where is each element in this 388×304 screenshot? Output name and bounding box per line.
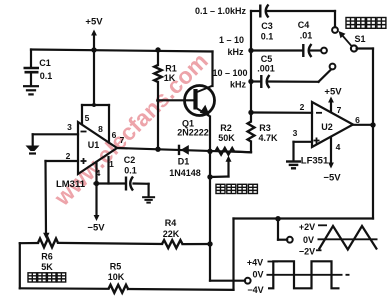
diode D1 — [169, 145, 201, 178]
wire line3 — [251, 70, 331, 82]
svg-text:10 – 100: 10 – 100 — [212, 68, 247, 78]
wire R2 to R3 — [234, 150, 251, 153]
svg-text:R5: R5 — [110, 262, 122, 272]
label S1 — [354, 34, 365, 44]
label pinlv tiaozheng — [216, 184, 257, 193]
square waveform — [267, 261, 350, 288]
switch S1 pole — [351, 45, 357, 51]
node triangle tap — [275, 216, 280, 221]
wire S1 to rail — [357, 49, 373, 219]
svg-text:+5V: +5V — [85, 17, 103, 28]
wire R5 left — [20, 243, 109, 289]
svg-text:2N2222: 2N2222 — [177, 128, 209, 138]
svg-text:.001: .001 — [257, 64, 275, 74]
svg-text:LM311: LM311 — [56, 179, 86, 190]
svg-text:0.1 – 1.0kHz: 0.1 – 1.0kHz — [195, 6, 247, 16]
terminal triangle out — [287, 237, 293, 243]
resistor R2 — [216, 123, 236, 155]
triangle waveform — [316, 225, 378, 250]
label fudu tiaojie — [28, 273, 66, 282]
node pin4 junction — [94, 181, 99, 186]
transistor Q1 — [158, 86, 215, 152]
svg-text:R4: R4 — [165, 218, 177, 228]
svg-text:1N4148: 1N4148 — [169, 168, 201, 178]
node Q1 base / R1 — [156, 99, 160, 103]
-5V supply U1 — [87, 184, 105, 234]
wire R6 to R4 — [58, 243, 162, 244]
svg-text:6: 6 — [355, 115, 360, 125]
square waveform labels — [247, 258, 264, 296]
svg-text:−5V: −5V — [323, 173, 341, 184]
terminal square out — [245, 278, 251, 284]
svg-text:R3: R3 — [259, 123, 271, 133]
switch contact 3 — [330, 64, 336, 70]
wire U2 output — [353, 124, 373, 126]
svg-text:50K: 50K — [218, 133, 235, 143]
ground C2 — [142, 197, 155, 202]
ground — [23, 86, 39, 94]
svg-text:0.1: 0.1 — [261, 32, 274, 42]
svg-text:C4: C4 — [298, 20, 310, 30]
triangle waveform labels — [299, 222, 315, 257]
svg-text:R1: R1 — [165, 64, 177, 74]
svg-text:kHz: kHz — [230, 80, 247, 90]
svg-text:+4V: +4V — [247, 258, 263, 268]
wire emitter node down — [209, 151, 211, 280]
svg-text:0V: 0V — [303, 235, 314, 245]
U1 pin labels — [66, 113, 125, 178]
svg-text:4.7K: 4.7K — [258, 133, 278, 143]
svg-text:0V: 0V — [252, 270, 263, 280]
label LM311 — [56, 179, 86, 190]
resistor R6 — [38, 239, 58, 272]
wire Q1 collector feed — [211, 52, 213, 87]
capacitor C4 — [298, 20, 313, 57]
svg-text:0.1: 0.1 — [40, 71, 53, 81]
wire U1 output — [117, 148, 251, 152]
ground U1 pin3 — [26, 146, 40, 154]
ground U2 pin3 — [286, 162, 301, 169]
svg-text:kHz: kHz — [227, 47, 244, 57]
label pinlv fanwei — [346, 18, 386, 29]
svg-text:5: 5 — [85, 113, 90, 123]
svg-text:LF351: LF351 — [301, 156, 329, 167]
wire U1 pin bus — [82, 103, 109, 143]
svg-text:4: 4 — [336, 142, 341, 152]
svg-text:−4V: −4V — [247, 285, 263, 295]
wire U1 pin4 pin1 — [95, 157, 125, 184]
node line2 — [248, 48, 253, 53]
resistor R3 — [248, 11, 278, 152]
wire U1 pin3 — [33, 134, 78, 145]
svg-text:+2V: +2V — [299, 222, 315, 232]
svg-text:8: 8 — [98, 124, 103, 134]
svg-text:C3: C3 — [261, 21, 273, 31]
R2 wiper — [211, 156, 232, 177]
U2 -5V pin4 — [323, 137, 341, 184]
capacitor C1 — [24, 58, 53, 85]
svg-text:6: 6 — [112, 130, 117, 140]
op-amp U2 — [312, 102, 353, 147]
+5V supply arrow — [85, 17, 103, 51]
label LF351 — [301, 156, 329, 167]
svg-text:7: 7 — [337, 105, 342, 115]
svg-text:3: 3 — [67, 122, 72, 132]
wire +5V rail — [31, 50, 213, 52]
svg-text:1K: 1K — [164, 73, 176, 83]
svg-text:C1: C1 — [39, 58, 51, 68]
svg-text:S1: S1 — [354, 34, 365, 44]
svg-text:−2V: −2V — [299, 247, 315, 257]
resistor R4 — [162, 218, 183, 248]
switch S1 arm — [339, 31, 352, 46]
svg-text:7: 7 — [120, 135, 125, 145]
svg-text:C5: C5 — [261, 54, 273, 64]
node R3 top — [248, 110, 253, 115]
node wiper junction — [207, 174, 212, 179]
svg-text:.01: .01 — [300, 31, 313, 41]
U2 pin labels — [293, 102, 361, 152]
switch contact 1 — [332, 27, 338, 33]
svg-text:+5V: +5V — [324, 87, 342, 98]
wire line2 — [251, 49, 321, 51]
svg-text:10K: 10K — [108, 272, 125, 282]
wire C2 to ground — [134, 184, 149, 197]
resistor R1 — [154, 50, 176, 149]
watermark — [48, 48, 212, 212]
U2 +5V pin7 — [324, 87, 342, 113]
wire C1 branch — [30, 50, 32, 68]
capacitor C2 — [124, 155, 137, 191]
svg-text:1: 1 — [109, 159, 114, 169]
svg-text:0.1: 0.1 — [124, 166, 137, 176]
svg-text:2: 2 — [66, 151, 71, 161]
wire U2 pin3 — [294, 142, 313, 161]
svg-text:U1: U1 — [88, 140, 100, 150]
svg-text:1 – 10: 1 – 10 — [219, 35, 244, 45]
wire U1 supply — [93, 50, 95, 105]
op-amp U1 — [78, 122, 117, 174]
svg-text:D1: D1 — [178, 157, 190, 167]
wire to square terminal — [210, 280, 245, 282]
node U2 out — [370, 122, 375, 127]
capacitor C5 — [257, 54, 275, 88]
node line3 — [248, 79, 253, 84]
node R4 junction — [207, 241, 212, 246]
wire right leg — [232, 219, 234, 290]
label 10-100kHz — [212, 68, 247, 90]
wire U1 pin2 — [43, 161, 78, 239]
svg-text:2: 2 — [300, 102, 305, 112]
node +5V rail / R1 — [91, 47, 96, 52]
label 0.1-1.0kHz — [195, 6, 247, 16]
node rail/R1 top — [155, 47, 160, 52]
svg-text:−5V: −5V — [87, 223, 105, 234]
svg-text:22K: 22K — [163, 229, 180, 239]
wire triangle bus — [234, 217, 374, 219]
svg-text:R6: R6 — [41, 252, 53, 262]
node U1 out / Q1 base — [155, 147, 160, 152]
svg-text:U2: U2 — [321, 122, 333, 132]
switch contact 2 — [321, 48, 327, 54]
svg-text:5K: 5K — [41, 262, 53, 272]
wire U2 pin2 — [251, 111, 312, 114]
svg-text:3: 3 — [293, 128, 298, 138]
wire line1 — [251, 11, 335, 27]
capacitor C3 — [260, 5, 273, 42]
wire to triangle terminal — [278, 219, 287, 240]
label 1-10kHz — [219, 35, 244, 57]
resistor R5 — [108, 262, 128, 293]
svg-text:C2: C2 — [124, 155, 136, 165]
wire bottom line — [128, 288, 234, 291]
svg-text:R2: R2 — [220, 123, 232, 133]
node D1 / Q1 emitter — [207, 149, 212, 154]
wire R4 right — [183, 243, 211, 245]
